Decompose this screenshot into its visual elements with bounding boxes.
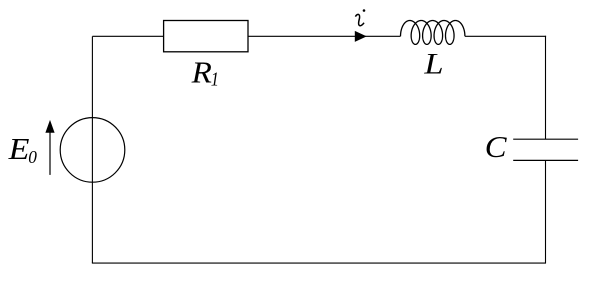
wire bottom xyxy=(92,262,546,264)
svg-text:1: 1 xyxy=(211,68,219,90)
svg-text:C: C xyxy=(485,130,508,164)
svg-text:L: L xyxy=(423,46,443,79)
E0 arrow shaft xyxy=(49,132,51,175)
wire top-left horizontal xyxy=(92,35,163,37)
inductor L coil xyxy=(401,21,465,45)
capacitor C bottom plate xyxy=(513,159,578,161)
wire resistor to inductor xyxy=(248,35,401,37)
current arrow head xyxy=(355,31,367,42)
svg-text:0: 0 xyxy=(28,146,37,167)
E0 arrow head xyxy=(45,120,54,133)
resistor R1 xyxy=(164,21,248,52)
label i body xyxy=(355,14,364,25)
wire right vertical lower xyxy=(545,160,547,263)
wire right vertical upper xyxy=(545,36,547,139)
svg-text:R: R xyxy=(191,54,213,89)
wire left vertical xyxy=(91,36,93,263)
label i dot xyxy=(363,9,366,12)
voltage source E0 circle xyxy=(60,118,125,183)
wire inductor to top-right corner xyxy=(465,35,546,37)
svg-text:E: E xyxy=(8,133,30,167)
capacitor C top plate xyxy=(513,138,578,140)
